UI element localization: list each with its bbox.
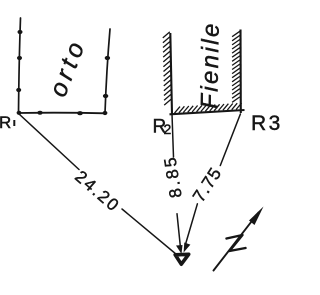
measurement line R2 to station (8.85) — [172, 114, 174, 157]
north arrow N mark — [227, 235, 246, 251]
orto plot boundary left line — [19, 18, 21, 113]
Fienile right wall — [239, 30, 241, 114]
measurement line R3 to station (7.75) — [220, 114, 240, 166]
north arrow shaft — [214, 213, 259, 271]
wire — [122, 209, 177, 255]
arrowhead 8.85 — [176, 245, 183, 254]
orto survey point dots — [16, 30, 110, 115]
Fienile bottom wall — [170, 110, 245, 114]
svg-text:R3: R3 — [251, 112, 283, 135]
station point triangle — [175, 254, 189, 264]
orto boundary right line — [105, 29, 110, 113]
wire — [177, 214, 181, 248]
north arrow head — [249, 207, 264, 226]
svg-text:2: 2 — [164, 121, 172, 137]
Fienile right wall hatching — [232, 31, 240, 102]
measurement line R1 to station (24.20) — [19, 114, 80, 170]
Fienile left wall — [170, 33, 172, 114]
svg-text:Fienile: Fienile — [196, 21, 225, 109]
Fienile bottom wall hatching — [175, 103, 242, 113]
svg-text:R: R — [0, 113, 11, 132]
orto boundary bottom line — [19, 112, 106, 115]
Fienile left wall hatching — [163, 32, 171, 105]
arrowhead 7.75 — [184, 243, 191, 253]
wire — [185, 204, 197, 246]
